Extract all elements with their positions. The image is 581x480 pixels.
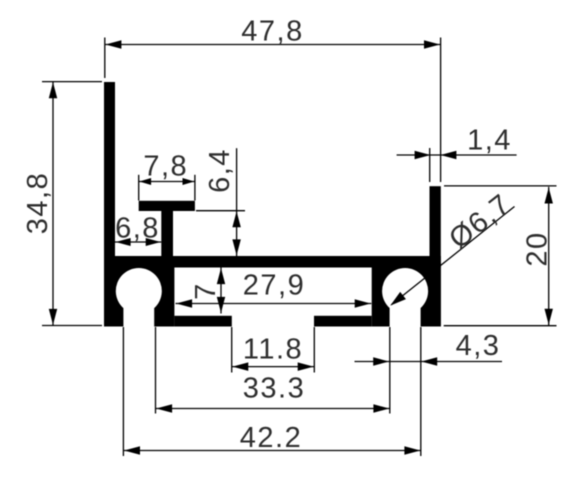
svg-text:Ø6,7: Ø6,7	[443, 188, 517, 256]
svg-text:47,8: 47,8	[241, 16, 303, 48]
svg-text:6,4: 6,4	[204, 148, 236, 193]
svg-text:4,3: 4,3	[456, 330, 501, 362]
svg-text:27,9: 27,9	[243, 270, 305, 302]
svg-text:6,8: 6,8	[115, 213, 160, 245]
svg-text:1,4: 1,4	[467, 125, 512, 157]
svg-text:42.2: 42.2	[240, 422, 302, 454]
svg-text:33.3: 33.3	[243, 373, 305, 405]
svg-text:7: 7	[190, 282, 222, 300]
svg-text:7,8: 7,8	[143, 151, 188, 183]
svg-text:34,8: 34,8	[22, 172, 54, 234]
svg-text:11.8: 11.8	[243, 334, 303, 366]
svg-text:20: 20	[522, 231, 554, 266]
